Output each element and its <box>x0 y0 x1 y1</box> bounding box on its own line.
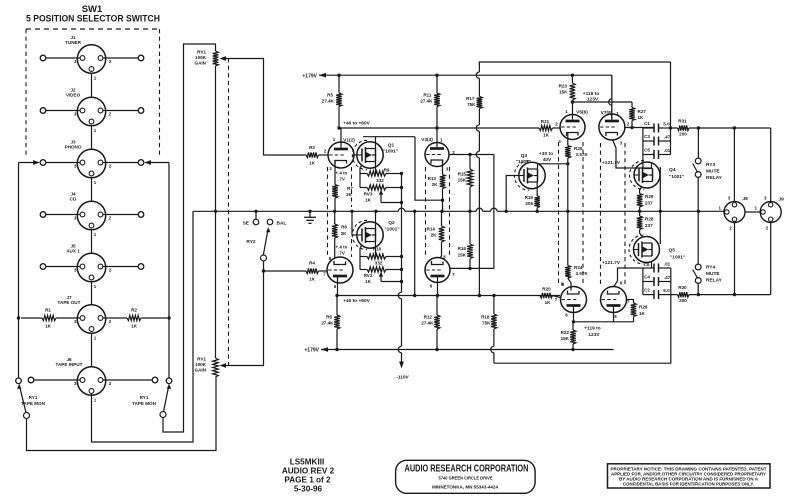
Q2 left leg <box>360 245 362 270</box>
V7 cathode to +121.7V output node <box>613 140 643 169</box>
wire J6 pin1 to common line <box>92 211 194 442</box>
capacitor C4 .47 <box>643 281 654 283</box>
V8 plate lead <box>613 306 615 313</box>
svg-text:3.57K: 3.57K <box>576 152 589 157</box>
svg-text:R1: R1 <box>45 308 51 313</box>
svg-text:R13: R13 <box>428 176 437 181</box>
svg-text:1K: 1K <box>131 324 138 329</box>
resistor R6 27.4K <box>336 296 338 316</box>
wire -110V rail <box>401 174 403 293</box>
upper feedback line <box>479 61 671 63</box>
svg-text:2K: 2K <box>431 233 438 238</box>
svg-text:R25: R25 <box>574 146 583 151</box>
svg-text:+179V: +179V <box>302 74 317 80</box>
resistor R8 2K <box>334 211 336 224</box>
svg-text:+121.7V: +121.7V <box>602 160 621 166</box>
svg-text:RY4: RY4 <box>706 265 715 271</box>
svg-text:AUDIO REV 2: AUDIO REV 2 <box>282 467 335 476</box>
svg-text:123V: 123V <box>587 97 599 103</box>
svg-text:RY3: RY3 <box>706 162 715 168</box>
svg-text:5 POSITION SELECTOR SWITCH: 5 POSITION SELECTOR SWITCH <box>26 14 160 25</box>
svg-text:R20: R20 <box>542 287 551 292</box>
wire Q1 loop to cathode node <box>415 137 443 201</box>
transistor Q2 "1001" <box>357 222 383 248</box>
resistor R24 3.57K <box>565 266 571 279</box>
cathode lead V1 <box>334 161 336 185</box>
resistor R16 15K <box>469 211 471 244</box>
svg-text:R18: R18 <box>481 315 490 320</box>
svg-text:RV1: RV1 <box>197 50 206 55</box>
terminals J1 row <box>40 55 46 61</box>
svg-text:15K: 15K <box>458 178 467 183</box>
resistor R26 1K <box>631 303 637 317</box>
svg-text:V3(4): V3(4) <box>421 137 433 143</box>
svg-text:TAPE MON: TAPE MON <box>132 401 157 406</box>
terminals J5 row <box>40 264 46 270</box>
svg-text:205: 205 <box>525 201 533 206</box>
svg-text:"1001": "1001" <box>384 227 399 233</box>
svg-text:332: 332 <box>376 178 384 183</box>
tube V8 lower right <box>601 287 627 313</box>
wire chain between connector pin1s <box>91 73 93 97</box>
svg-text:3.57K: 3.57K <box>576 271 589 276</box>
potentiometer RV3 1K <box>367 185 386 190</box>
svg-text:"1001": "1001" <box>670 255 685 261</box>
svg-text:R3: R3 <box>309 145 315 150</box>
dashed separators V3/V4 column <box>425 167 427 258</box>
svg-text:RV1: RV1 <box>197 357 206 362</box>
terminals J2 row <box>40 108 46 114</box>
svg-text:PAGE 1 of 2: PAGE 1 of 2 <box>284 476 331 485</box>
tube V6 <box>561 287 587 313</box>
svg-text:Q2: Q2 <box>388 220 395 226</box>
svg-text:V5(6): V5(6) <box>576 110 588 116</box>
svg-text:AUDIO RESEARCH CORPORATION: AUDIO RESEARCH CORPORATION <box>405 464 529 475</box>
lower caps left bus <box>642 268 644 295</box>
svg-text:"1001": "1001" <box>516 159 531 165</box>
svg-text:R7: R7 <box>347 186 353 191</box>
transistor Q5 "1001" <box>634 237 660 263</box>
svg-text:15K: 15K <box>458 253 467 258</box>
dashed separators V7/V8 column <box>600 143 602 285</box>
V4 plate lead <box>437 277 439 296</box>
SW1 dashed enclosure <box>26 28 160 30</box>
svg-text:RELAY: RELAY <box>706 175 723 181</box>
lower feedback line <box>494 295 671 364</box>
svg-text:1K: 1K <box>309 161 316 166</box>
connector J1 TUNER <box>77 45 105 73</box>
svg-text:R16: R16 <box>458 246 467 251</box>
wire first-stage plate line +40 to +60V <box>339 127 539 129</box>
J3 input arrows from rails <box>19 162 37 164</box>
relay RY4 MUTE RELAY <box>695 264 701 270</box>
relay RY1 TAPE MON left <box>24 413 30 419</box>
right rail <box>168 163 170 379</box>
resistor R15 15K <box>469 155 471 170</box>
svg-text:.7V: .7V <box>338 251 345 256</box>
J6 row terminals and tape-monitor contacts <box>28 377 34 383</box>
svg-text:.01: .01 <box>664 262 671 267</box>
resistor R22 15K <box>572 322 574 330</box>
resistor R1 1K <box>21 317 42 319</box>
resistor R14 2K <box>441 211 443 226</box>
Q4Q5 right bus <box>659 167 661 244</box>
resistor R20 1K <box>540 293 553 298</box>
svg-text:GAIN: GAIN <box>195 61 207 66</box>
wire signal common / output line <box>193 210 398 212</box>
svg-text:R6: R6 <box>326 315 332 320</box>
svg-text:15K: 15K <box>559 90 568 95</box>
svg-text:27.4K: 27.4K <box>421 321 434 326</box>
svg-text:MINNETONKA, MN 55343-4424: MINNETONKA, MN 55343-4424 <box>432 485 498 490</box>
svg-text:R9: R9 <box>384 168 390 173</box>
svg-text:R28: R28 <box>645 217 654 222</box>
grid tie vertical <box>493 155 495 269</box>
svg-text:V7(8): V7(8) <box>601 110 613 116</box>
Q2 drain lead <box>375 211 377 228</box>
V4 grid wire <box>450 267 494 269</box>
resistor R28 237 <box>639 211 641 216</box>
Q3 gate wire <box>506 176 519 212</box>
svg-text:C4: C4 <box>644 275 650 280</box>
svg-text:C6: C6 <box>644 262 650 267</box>
transistor Q1 "1001" <box>357 142 383 168</box>
svg-text:R22: R22 <box>561 330 570 335</box>
Q1 gate wire <box>353 154 357 156</box>
svg-text:TUNER: TUNER <box>65 40 82 45</box>
svg-text:200: 200 <box>679 298 687 303</box>
svg-text:100K: 100K <box>195 362 207 367</box>
V5 cathode lead <box>567 133 569 146</box>
V8 grid to R26 <box>627 300 634 304</box>
tube V5(6) <box>560 115 585 140</box>
svg-text:1K: 1K <box>365 279 372 284</box>
svg-text:RV3: RV3 <box>364 192 373 197</box>
svg-text:RY2: RY2 <box>246 239 255 245</box>
resistor R23 15K <box>571 75 573 83</box>
transistor Q4 "1001" <box>634 162 660 188</box>
svg-text:V1(2): V1(2) <box>343 138 355 144</box>
tube V7(8) <box>599 114 625 140</box>
svg-text:J9: J9 <box>779 197 785 203</box>
terminals J3 row <box>40 160 46 166</box>
svg-text:"1001": "1001" <box>669 174 684 180</box>
svg-text:R4: R4 <box>309 261 315 266</box>
svg-text:5740 GREEN CIRCLE DRIVE: 5740 GREEN CIRCLE DRIVE <box>439 476 493 481</box>
tube V4 <box>425 258 450 283</box>
wire lower plate line +40 to +60V <box>337 295 560 297</box>
capacitor C6 .01 <box>643 267 654 269</box>
svg-text:R21: R21 <box>541 119 550 124</box>
svg-text:R19: R19 <box>525 195 534 200</box>
svg-text:C3: C3 <box>644 134 650 139</box>
wire J9 pin3 feed <box>770 128 772 202</box>
svg-text:Q3: Q3 <box>521 153 528 159</box>
logo box AUDIO RESEARCH CORPORATION <box>396 460 535 493</box>
tube V1(2) <box>328 142 354 168</box>
dashed channel separator <box>228 58 230 365</box>
svg-text:R5: R5 <box>327 93 333 98</box>
Q3 source lead <box>536 182 538 196</box>
svg-text:TAPE INPUT: TAPE INPUT <box>56 362 83 367</box>
svg-text:.47: .47 <box>664 275 671 280</box>
resistor R31 200 <box>671 127 678 129</box>
svg-text:RELAY: RELAY <box>706 278 723 284</box>
svg-text:Q4: Q4 <box>669 167 676 173</box>
ground symbol <box>308 210 311 213</box>
Q2 source lead <box>375 242 377 257</box>
resistor R3 1K <box>306 152 319 157</box>
resistor R2 1K <box>103 317 127 319</box>
svg-text:TAPE MON: TAPE MON <box>21 401 46 406</box>
svg-text:27.4K: 27.4K <box>420 99 433 104</box>
resistor R5 27.4K <box>338 75 340 93</box>
svg-text:R15: R15 <box>458 172 467 177</box>
relay RY1 TAPE MON right <box>160 412 166 418</box>
svg-text:+40 to +60V: +40 to +60V <box>343 298 370 304</box>
Q1 source lead <box>375 162 377 174</box>
capacitor C2 5.0 <box>643 294 654 296</box>
dashed tube-half separators V1/V2 column <box>327 167 329 257</box>
svg-text:R8: R8 <box>341 225 347 230</box>
connector J4 CD <box>77 201 105 229</box>
svg-text:-110V: -110V <box>396 375 409 381</box>
Q4 drain lead <box>651 164 653 169</box>
connector J7 TAPE OUT <box>77 305 105 333</box>
lower caps right bus <box>670 268 672 295</box>
svg-text:TAPE OUT: TAPE OUT <box>58 300 81 305</box>
V6 plate lead <box>573 306 575 322</box>
svg-text:200: 200 <box>679 132 687 137</box>
svg-text:1K: 1K <box>309 277 316 282</box>
resistor R29 237 <box>637 194 643 208</box>
svg-text:1K: 1K <box>45 324 52 329</box>
svg-text:75K: 75K <box>467 102 476 107</box>
capacitor C3 .47 <box>643 140 654 142</box>
svg-text:15K: 15K <box>561 336 570 341</box>
svg-text:2K: 2K <box>341 231 348 236</box>
resistor R12 27.4K <box>436 296 438 316</box>
svg-text:R14: R14 <box>427 227 436 232</box>
svg-text:"1001": "1001" <box>383 149 398 155</box>
resistor R9 332 <box>367 171 386 176</box>
chain V5 cathode to V6 plate <box>567 164 569 212</box>
capacitor C1 5.0 <box>643 127 654 129</box>
svg-text:237: 237 <box>645 223 653 228</box>
wire J8 pin3 feed <box>733 128 735 202</box>
proprietary notice box <box>608 464 771 488</box>
svg-text:237: 237 <box>645 201 653 206</box>
svg-text:R17: R17 <box>466 96 475 101</box>
svg-text:Q1: Q1 <box>388 143 395 149</box>
svg-text:+.4 to: +.4 to <box>336 245 348 250</box>
wire RV1 bottom to common <box>215 66 217 211</box>
svg-text:VIDEO: VIDEO <box>66 93 81 98</box>
connector J8 output <box>724 202 745 223</box>
resistor R10 332 <box>367 254 386 259</box>
svg-text:1K: 1K <box>365 198 372 203</box>
svg-text:R2: R2 <box>131 308 137 313</box>
svg-text:RV2: RV2 <box>364 273 373 278</box>
potentiometer RV1 100K GAIN lower <box>215 211 217 358</box>
V4 cathode lead <box>440 256 442 259</box>
wire J8 pin2 to lower output <box>734 223 736 295</box>
resistor R27 1K <box>631 102 633 108</box>
svg-text:+179V: +179V <box>304 348 319 354</box>
relay RY3 MUTE RELAY <box>697 128 699 158</box>
svg-text:+40 to +60V: +40 to +60V <box>343 121 370 127</box>
svg-text:1K: 1K <box>639 311 646 316</box>
svg-text:1K: 1K <box>638 115 645 120</box>
svg-text:RY1: RY1 <box>140 395 149 400</box>
V7 grid wire to caps <box>625 127 654 129</box>
svg-text:C2: C2 <box>644 288 650 293</box>
svg-text:2K: 2K <box>432 182 439 187</box>
svg-text:Q5: Q5 <box>669 248 676 254</box>
svg-text:+30 to: +30 to <box>539 151 553 157</box>
svg-text:+121.7V: +121.7V <box>602 260 621 266</box>
svg-text:GAIN: GAIN <box>195 368 207 373</box>
svg-text:+119 to: +119 to <box>583 91 599 97</box>
transistor Q3 "1001" <box>519 162 545 188</box>
wire Q2 loop to lower plate line <box>414 211 416 295</box>
resistor R25 3.57K <box>565 146 571 159</box>
connector J2 VIDEO <box>77 97 105 125</box>
svg-text:123V: 123V <box>588 332 600 338</box>
V8 cathode wire to caps <box>614 268 643 287</box>
svg-text:AUX 1: AUX 1 <box>66 249 80 254</box>
Q1 left leg <box>360 165 362 188</box>
svg-text:.7V: .7V <box>338 177 345 182</box>
svg-text:R11: R11 <box>423 93 432 98</box>
svg-text:PHONO: PHONO <box>65 145 82 150</box>
connector J5 AUX 1 <box>77 253 105 281</box>
wire right RY1 to top feed <box>163 44 216 432</box>
wire J8-J9 link <box>745 211 761 213</box>
svg-text:R29: R29 <box>645 194 654 199</box>
wire J9 pin2 to lower output <box>770 223 772 295</box>
svg-text:C5: C5 <box>644 148 650 153</box>
svg-text:75K: 75K <box>482 321 491 326</box>
resistor R13 2K <box>440 175 446 189</box>
tube V2 <box>327 257 353 283</box>
svg-text:27.4K: 27.4K <box>321 321 334 326</box>
left rail <box>18 163 20 379</box>
svg-text:1K: 1K <box>543 133 550 138</box>
svg-text:CD: CD <box>70 197 77 202</box>
Q2 gate wire <box>352 211 357 235</box>
svg-text:MUTE: MUTE <box>706 169 720 175</box>
potentiometer RV2 1K <box>367 267 386 272</box>
svg-text:+.4 to: +.4 to <box>336 171 348 176</box>
resistor R18 75K <box>493 296 495 315</box>
svg-text:LS5MKIII: LS5MKIII <box>290 458 325 467</box>
resistor R4 1K <box>306 268 319 273</box>
svg-text:R31: R31 <box>678 119 687 124</box>
svg-text:R12: R12 <box>424 315 433 320</box>
connector J6 TAPE INPUT <box>77 367 105 395</box>
resistor R21 1K <box>539 125 553 130</box>
svg-text:+119 to: +119 to <box>584 326 600 332</box>
caps left bus <box>642 128 644 168</box>
Q3 drain wire <box>537 164 539 170</box>
V6 cathode lead via R24 chain <box>568 278 571 291</box>
wire left RY1 to RV1 lower pot bottom <box>27 377 217 451</box>
svg-text:5.0: 5.0 <box>663 288 670 293</box>
tube V3(6) <box>425 143 449 167</box>
Q5 drain lead <box>651 262 653 269</box>
caps right bus / feedback corner <box>670 62 672 155</box>
svg-text:SE: SE <box>243 221 250 227</box>
plate lead V2 to lower supply line <box>337 277 339 296</box>
dashed separators V5/V6 column <box>558 142 560 285</box>
resistor R30 200 <box>671 294 678 296</box>
resistor R17 75K <box>478 62 480 72</box>
terminals J4 row <box>40 212 46 218</box>
potentiometer RV1 100K GAIN upper <box>213 51 219 66</box>
wire +119 to 123V cathode node <box>574 321 634 323</box>
connector J9 output <box>760 202 781 223</box>
resistor R11 27.4K <box>436 75 438 93</box>
capacitor C5 .01 <box>643 154 654 156</box>
wire +119 to 123V node <box>572 101 632 103</box>
svg-text:R24: R24 <box>574 265 583 270</box>
svg-text:MUTE: MUTE <box>706 271 720 277</box>
svg-text:5.0: 5.0 <box>663 122 670 127</box>
svg-text:J8: J8 <box>743 196 749 202</box>
svg-text:RY1: RY1 <box>29 395 38 400</box>
resistor R19 205 <box>534 196 540 208</box>
resistor R7 2K <box>332 185 338 199</box>
svg-text:.47: .47 <box>664 135 671 140</box>
svg-text:40V: 40V <box>543 157 552 163</box>
Q1 drain line <box>363 136 415 138</box>
svg-text:CONFIDENTAL BASIS FOR IDENTIFI: CONFIDENTAL BASIS FOR IDENTIFICATION PUR… <box>623 481 754 486</box>
svg-text:5-30-96: 5-30-96 <box>294 485 323 494</box>
svg-text:BAL: BAL <box>277 221 287 227</box>
svg-text:27.4K: 27.4K <box>322 99 335 104</box>
Q4 source to R29 <box>640 187 642 194</box>
relay RY2 SE/BAL switch <box>254 210 257 213</box>
svg-text:R26: R26 <box>639 305 648 310</box>
svg-text:100K: 100K <box>195 55 207 60</box>
svg-text:R27: R27 <box>638 109 647 114</box>
V3 grid tie line <box>449 154 494 156</box>
V3 cathode lead <box>442 160 444 175</box>
svg-text:R30: R30 <box>678 285 687 290</box>
svg-text:C1: C1 <box>644 121 650 126</box>
connector J3 PHONO <box>77 149 105 177</box>
svg-text:1K: 1K <box>545 300 552 305</box>
svg-text:.01: .01 <box>664 148 671 153</box>
svg-text:R23: R23 <box>559 84 568 89</box>
svg-text:R10: R10 <box>373 247 382 252</box>
svg-text:332: 332 <box>375 261 383 266</box>
